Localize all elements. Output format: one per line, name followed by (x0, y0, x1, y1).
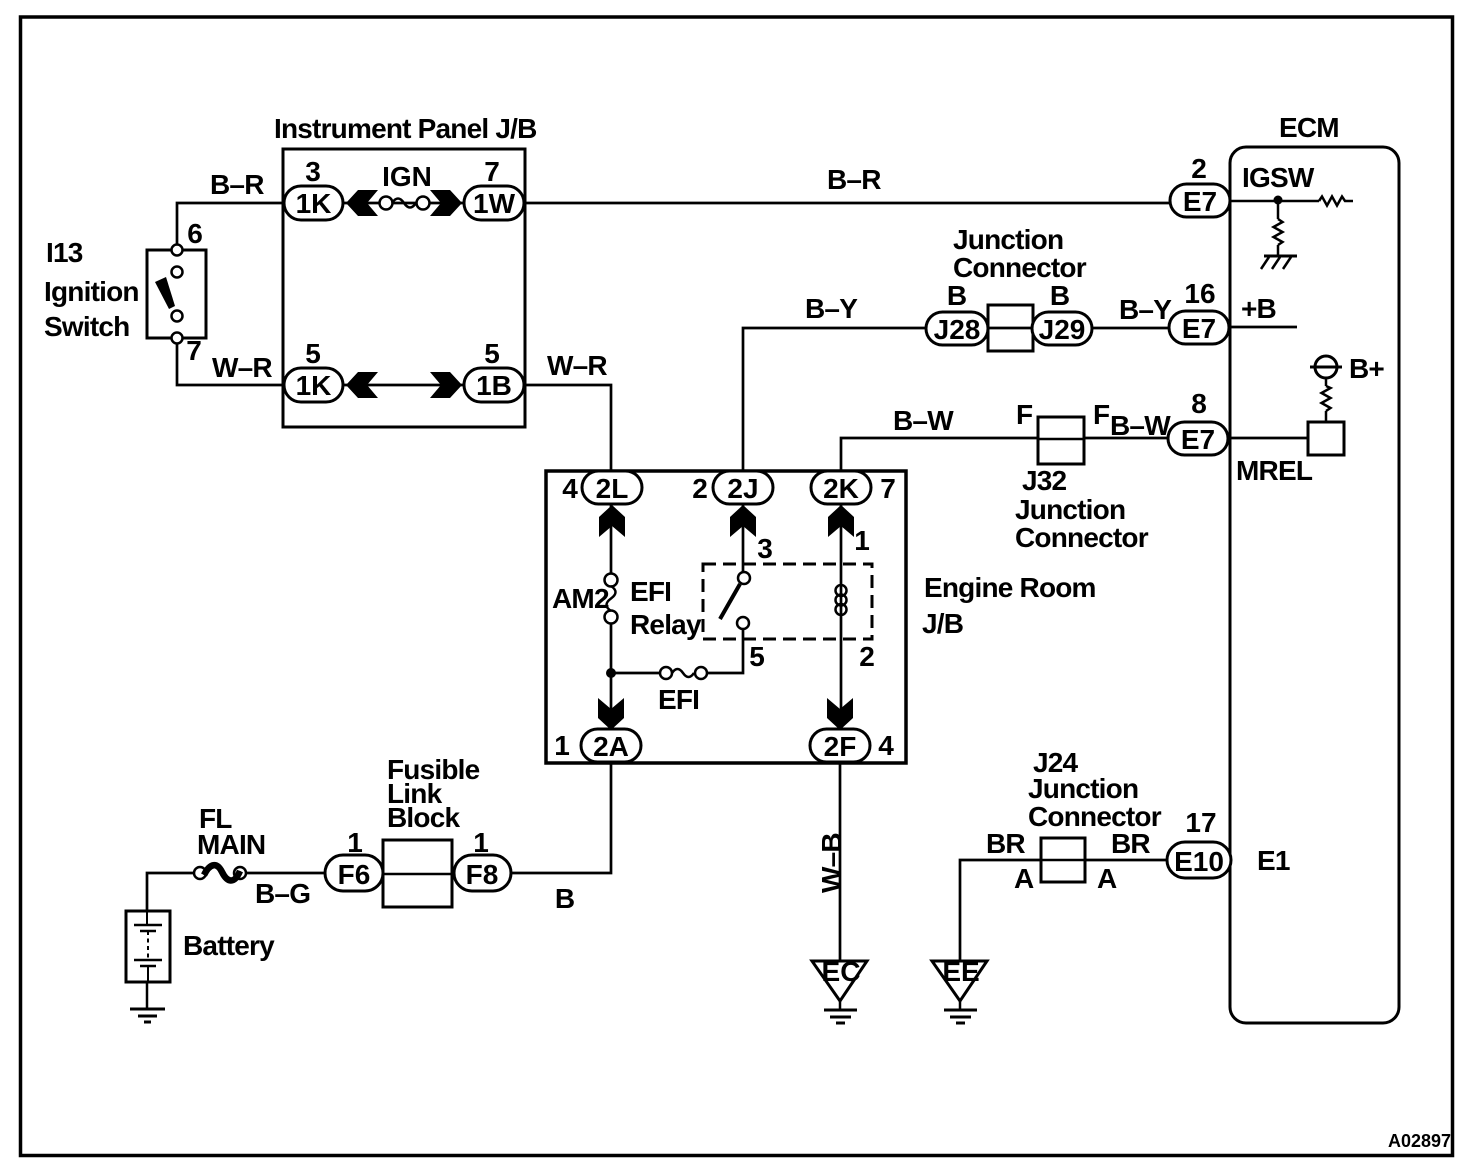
wire 2L column to AM2 fuse (610, 504, 613, 574)
svg-text:J28: J28 (934, 314, 981, 345)
wire BR ground EE to J24 (960, 860, 1041, 961)
wire B-Y J29 to ECM E7 pin 16 (1092, 327, 1171, 330)
svg-text:2L: 2L (596, 473, 629, 504)
svg-text:J/B: J/B (922, 608, 963, 639)
svg-text:EE: EE (942, 956, 979, 987)
bus bar arrow left row1 (346, 190, 378, 216)
svg-text:E1: E1 (1257, 845, 1290, 876)
wire label B-Y right (1119, 294, 1172, 325)
svg-text:6: 6 (187, 218, 203, 249)
wire B 2A to fusible link F8 (511, 763, 611, 873)
wire 2K column through relay coil to 2F (840, 504, 843, 730)
svg-text:IGN: IGN (382, 161, 432, 192)
svg-text:F6: F6 (338, 859, 371, 890)
svg-text:4: 4 (562, 473, 578, 504)
svg-text:B–G: B–G (255, 878, 310, 909)
svg-text:Relay: Relay (630, 609, 702, 640)
bus bar arrow up under 2J (730, 505, 756, 537)
svg-text:B–R: B–R (827, 164, 881, 195)
wire through junction connector J28-J29 (988, 327, 1032, 330)
bus bar arrow right row2 (430, 372, 462, 398)
svg-text:17: 17 (1185, 807, 1216, 838)
wire B-Y 2J to J28 (743, 328, 926, 471)
svg-text:7: 7 (484, 156, 500, 187)
svg-text:BR: BR (1111, 828, 1150, 859)
svg-text:I13: I13 (46, 237, 83, 268)
connector 2A pin 1 (554, 729, 641, 762)
svg-text:5: 5 (484, 338, 500, 369)
svg-text:ECM: ECM (1279, 112, 1339, 143)
svg-text:A: A (1097, 863, 1117, 894)
svg-text:B: B (947, 280, 967, 311)
bus bar arrow down above 2A (598, 698, 624, 730)
fusible link FL MAIN (194, 803, 265, 881)
fusible link block (383, 754, 480, 907)
svg-text:F8: F8 (466, 859, 499, 890)
B+ supply symbol (1310, 353, 1384, 422)
svg-text:Junction: Junction (953, 224, 1063, 255)
bus bar arrow down above 2F (827, 698, 853, 730)
wire label W-R left (212, 352, 272, 383)
wire label B-R top (827, 164, 881, 195)
bus bar arrow up under 2K (828, 505, 854, 537)
connector E7 pin 16 +B (1169, 278, 1276, 344)
wire through junction connector J32 (1040, 437, 1084, 440)
svg-text:EC: EC (822, 956, 861, 987)
pin label 3 on 2J wire (757, 533, 773, 564)
svg-text:1K: 1K (296, 370, 332, 401)
battery (126, 911, 275, 982)
svg-text:B–Y: B–Y (805, 293, 858, 324)
wire B-R 1W to ECM E7 pin 2 (524, 202, 1172, 205)
connector 2K pin 7 (811, 471, 896, 504)
wire B-G FL MAIN to F6 (246, 872, 327, 875)
svg-text:B: B (555, 883, 575, 914)
junction block Engine Room J/B (546, 471, 1096, 763)
svg-text:4: 4 (878, 730, 894, 761)
wire W-R ignition switch pin 7 to 1K (177, 338, 284, 385)
wire label W-B rotated (816, 833, 847, 893)
svg-text:1: 1 (347, 827, 363, 858)
svg-text:W–B: W–B (816, 833, 847, 893)
svg-text:1: 1 (473, 827, 489, 858)
fuse EFI (658, 667, 707, 715)
svg-text:W–R: W–R (212, 352, 272, 383)
junction connector J28 J29 (926, 224, 1092, 351)
svg-text:Switch: Switch (44, 311, 129, 342)
MREL relay box inside ECM (1308, 422, 1344, 455)
svg-text:1W: 1W (473, 188, 516, 219)
bus bar arrow up under 2L (599, 505, 625, 537)
svg-text:1B: 1B (476, 370, 512, 401)
svg-text:2J: 2J (727, 473, 758, 504)
svg-text:F: F (1016, 399, 1033, 430)
svg-text:IGSW: IGSW (1242, 162, 1315, 193)
ECM internal IGSW pull-down circuit (1230, 196, 1353, 257)
wire label B-Y left (805, 293, 858, 324)
svg-text:1: 1 (854, 525, 870, 556)
wire bus row2 inside Instrument Panel J/B (343, 384, 464, 387)
wire +B stub inside ECM (1229, 326, 1297, 329)
connector 1K pin 5 (284, 338, 343, 402)
ground EE (932, 956, 987, 1023)
connector F6 pin 1 (325, 827, 383, 891)
svg-text:7: 7 (186, 335, 202, 366)
svg-text:2: 2 (1191, 153, 1207, 184)
wire MREL stub inside ECM (1228, 437, 1310, 440)
ECM block (1230, 112, 1399, 1023)
connector 1K pin 3 (284, 156, 343, 220)
wire label B-G (255, 878, 310, 909)
connector E7 pin 8 MREL (1168, 388, 1313, 486)
svg-text:W–R: W–R (547, 350, 607, 381)
svg-text:E10: E10 (1174, 846, 1224, 877)
svg-text:1: 1 (554, 730, 570, 761)
svg-text:3: 3 (305, 156, 321, 187)
svg-text:2F: 2F (824, 731, 857, 762)
bus bar arrow left row2 (346, 372, 378, 398)
connector 1W pin 7 (464, 156, 524, 220)
svg-text:BR: BR (986, 828, 1025, 859)
svg-text:B–W: B–W (1110, 410, 1171, 441)
junction block Instrument Panel J/B (274, 113, 537, 427)
svg-text:MREL: MREL (1236, 455, 1313, 486)
wire relay switch to EFI fuse (707, 629, 743, 673)
wire W-R 1B to Engine Room J/B 2L (524, 385, 611, 471)
svg-text:Connector: Connector (953, 252, 1087, 283)
svg-text:Ignition: Ignition (44, 276, 139, 307)
svg-text:E7: E7 (1182, 313, 1216, 344)
svg-text:Engine Room: Engine Room (924, 572, 1096, 603)
svg-text:J32: J32 (1022, 465, 1067, 496)
svg-text:Battery: Battery (183, 930, 275, 961)
svg-text:5: 5 (305, 338, 321, 369)
svg-text:B+: B+ (1349, 353, 1384, 384)
svg-text:Junction: Junction (1028, 773, 1138, 804)
wire 2J column to relay switch (742, 504, 745, 572)
junction connector J32 (1015, 399, 1149, 553)
svg-text:AM2: AM2 (552, 583, 609, 614)
EFI relay (630, 564, 875, 672)
ground EC (812, 956, 867, 1023)
bus bar arrow right row1 (430, 190, 462, 216)
wire battery to FL MAIN (147, 873, 194, 911)
svg-text:A: A (1014, 863, 1034, 894)
svg-text:+B: +B (1241, 293, 1276, 324)
connector 2F pin 4 (810, 729, 894, 762)
svg-text:MAIN: MAIN (197, 829, 265, 860)
svg-text:2: 2 (859, 641, 875, 672)
svg-text:B–R: B–R (210, 169, 264, 200)
svg-text:F: F (1093, 399, 1110, 430)
wire label B-W left (893, 405, 954, 436)
junction connector J24 (986, 747, 1162, 894)
node junction dot on 2A column (606, 668, 616, 678)
wire label B (555, 883, 575, 914)
connector 1B pin 5 (464, 338, 524, 402)
svg-text:2A: 2A (593, 731, 629, 762)
wire W-B 2F to ground EC (839, 763, 842, 961)
svg-text:Block: Block (387, 802, 460, 833)
connector F8 pin 1 (454, 827, 511, 891)
wire AM2 fuse to 2A with junction (610, 623, 613, 730)
svg-text:Instrument Panel J/B: Instrument Panel J/B (274, 113, 537, 144)
wire B-W J32 to ECM E7 pin 8 (1084, 437, 1170, 440)
svg-text:E7: E7 (1181, 424, 1215, 455)
connector 2J pin 2 (692, 471, 773, 504)
svg-text:2K: 2K (823, 473, 859, 504)
wire EFI fuse to junction node (611, 672, 660, 675)
wire B-R ignition switch pin 6 to 1K (177, 203, 284, 250)
pin label 1 on 2K wire (854, 525, 870, 556)
svg-text:3: 3 (757, 533, 773, 564)
svg-text:J29: J29 (1039, 314, 1086, 345)
svg-text:B: B (1050, 280, 1070, 311)
svg-text:EFI: EFI (658, 684, 699, 715)
fuse IGN (377, 161, 432, 210)
ignition switch I13 (44, 218, 206, 366)
svg-text:16: 16 (1184, 278, 1215, 309)
wire through fusible link block (383, 873, 456, 876)
svg-text:EFI: EFI (630, 576, 671, 607)
svg-text:E7: E7 (1183, 186, 1217, 217)
connector E7 pin 2 IGSW (1170, 153, 1315, 217)
ground below battery (130, 982, 165, 1022)
svg-text:Junction: Junction (1015, 494, 1125, 525)
svg-text:2: 2 (692, 473, 708, 504)
svg-text:1K: 1K (296, 188, 332, 219)
connector E10 pin 17 E1 (1167, 807, 1290, 878)
wire label B-R left (210, 169, 264, 200)
diagram code A02897 (1388, 1131, 1451, 1151)
wire bus row1 inside Instrument Panel J/B (343, 202, 464, 205)
fuse AM2 (552, 574, 618, 624)
connector 2L pin 4 (562, 471, 642, 504)
svg-text:B–Y: B–Y (1119, 294, 1172, 325)
wire B-W 2K to J32 (841, 438, 1040, 471)
svg-text:Connector: Connector (1015, 522, 1149, 553)
wire label B-W right (1110, 410, 1171, 441)
svg-text:7: 7 (880, 473, 896, 504)
wire BR J24 to E10 (1083, 859, 1170, 862)
svg-text:5: 5 (749, 641, 765, 672)
wire through junction connector J24 (1041, 859, 1083, 862)
svg-text:8: 8 (1191, 388, 1207, 419)
wire label W-R right of 1B (547, 350, 607, 381)
svg-text:B–W: B–W (893, 405, 954, 436)
ground chassis inside ECM (1261, 256, 1297, 269)
svg-text:A02897: A02897 (1388, 1131, 1451, 1151)
